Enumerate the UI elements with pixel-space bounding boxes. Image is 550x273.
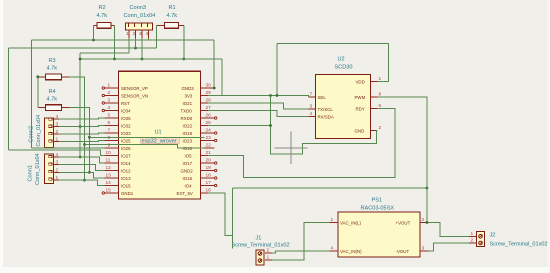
svg-text:IO35: IO35 [121,116,131,121]
svg-text:9: 9 [108,143,111,149]
svg-text:3: 3 [139,31,142,37]
svg-text:4: 4 [108,105,111,111]
wire R1 left lead drop [156,25,158,48]
screw terminal J1 [232,236,290,266]
svg-text:3V3: 3V3 [185,94,193,99]
wire EXT_5V jog [208,193,233,236]
wire rowB [9,47,157,49]
node x79.6 row59 junction [79,58,82,61]
svg-text:IO14: IO14 [121,161,131,166]
wire row59 drop to 3V3 [221,59,223,96]
wire rowA right drop to GND3 [213,40,215,88]
wire TXD0 to RX/SDA [208,111,309,117]
svg-text:3: 3 [56,122,59,128]
node x88.9 junction [88,136,91,139]
svg-text:RXD0: RXD0 [181,116,193,121]
IC U1 esp32_wrover body [119,71,201,199]
IC U2 SCD30 body [316,57,371,139]
wire rowA top rail [32,39,215,41]
svg-text:4: 4 [146,31,149,37]
wire vertical bus x79.6 [79,53,81,157]
resistor R3 [38,58,70,80]
wire R2 right lead drop [114,25,116,59]
wire 5V rail L2 [233,187,427,189]
svg-text:4.7k: 4.7k [47,66,58,72]
svg-text:Conn3: Conn3 [130,5,146,11]
wire R1 right lead drop [183,25,185,59]
U2 pins [309,76,382,134]
wire row59 rail [80,58,222,60]
svg-text:RX/SDA: RX/SDA [318,115,334,120]
wire Conn2 pin2 to IO33 [59,133,105,134]
svg-text:23: 23 [206,135,212,141]
svg-text:18: 18 [206,173,212,179]
connector Conn3 [124,5,156,38]
svg-text:R1: R1 [169,5,176,11]
node SEL junction [269,94,272,97]
svg-text:SENSOR_VN: SENSOR_VN [121,94,148,99]
wire rowC [80,52,129,54]
svg-text:5: 5 [108,113,111,119]
svg-text:VDD: VDD [356,80,365,85]
svg-text:GND3: GND3 [182,86,195,91]
wire 3V3 top run to VDD [277,44,389,82]
svg-text:7: 7 [108,128,111,134]
svg-text:IO25: IO25 [121,139,131,144]
node 5V rail junction [426,187,429,190]
svg-text:8: 8 [108,135,111,141]
node R3 left junction [36,75,39,78]
svg-text:1: 1 [56,137,59,143]
svg-text:Screw_Terminal_01x02: Screw_Terminal_01x02 [490,242,548,248]
svg-text:4: 4 [310,111,313,117]
svg-text:IO27: IO27 [121,154,131,159]
svg-text:U1: U1 [155,130,162,136]
svg-text:R3: R3 [49,58,56,64]
wire R4 right to mesh [70,108,90,173]
svg-text:RAC03-05SX: RAC03-05SX [361,206,395,212]
svg-text:1: 1 [471,231,474,237]
svg-text:14: 14 [106,180,112,186]
svg-text:2: 2 [422,217,425,223]
wire Conn3 pin1 drop [128,38,130,53]
svg-text:IO15: IO15 [121,184,131,189]
wire IO5 run [208,109,395,178]
svg-text:20: 20 [206,158,212,164]
wire +VOUT to J2 pin1 [429,223,470,237]
wire L2 left drop [232,188,234,249]
svg-text:IO13: IO13 [121,176,131,181]
wire Conn2 pin4 to IO35 [59,118,105,119]
svg-text:GND2: GND2 [181,169,194,174]
PS1 pins [330,217,429,254]
svg-text:Conn_01x04: Conn_01x04 [35,153,41,185]
svg-text:-VOUT: -VOUT [396,249,410,254]
svg-text:1: 1 [108,83,111,89]
svg-text:3: 3 [108,98,111,104]
wire Conn1 pin1 to IO15 [59,180,105,185]
svg-text:IO23: IO23 [183,139,193,144]
wire gap row2 to IO27 [9,150,105,156]
svg-text:+VOUT: +VOUT [396,221,411,226]
node x84 junction [83,143,86,146]
svg-text:30: 30 [206,83,212,89]
wire rowB left drop [8,48,10,150]
svg-text:TX/SCL: TX/SCL [318,107,334,112]
svg-text:22: 22 [206,143,212,149]
wire gap row1 to IO26 [32,147,105,149]
svg-text:Conn_01x04: Conn_01x04 [36,115,42,147]
svg-text:26: 26 [206,113,212,119]
svg-text:1: 1 [56,175,59,181]
svg-text:1: 1 [267,255,270,261]
node rowB Conn3 pin2 junction [134,47,137,50]
svg-text:3: 3 [56,160,59,166]
svg-text:11: 11 [106,158,111,164]
node rowA R2 junction [92,39,95,42]
svg-text:4: 4 [56,114,59,120]
svg-text:4.7k: 4.7k [47,97,58,103]
svg-text:4: 4 [331,246,334,252]
svg-text:IO22: IO22 [183,124,193,129]
wire rowA left drop [31,40,33,148]
svg-text:3: 3 [422,246,425,252]
svg-text:GND: GND [355,129,365,134]
node row59 R1 junction [182,58,185,61]
svg-text:7: 7 [310,92,313,98]
svg-text:1: 1 [331,217,334,223]
U1 left pins 1-15 [102,83,148,197]
svg-text:10: 10 [106,150,112,156]
node x88.9 Conn1 pin2 junction [88,171,91,174]
svg-text:SENSOR_VP: SENSOR_VP [121,86,148,91]
svg-text:GND1: GND1 [121,191,134,196]
svg-text:VAC_IN(N): VAC_IN(N) [340,249,362,254]
svg-text:1: 1 [126,31,129,37]
power module PS1 RAC03-05SX body [338,198,420,258]
node x79.6 Conn1 pin4 junction [79,156,82,159]
svg-text:RST: RST [121,101,130,106]
screw terminal J2 [469,231,548,248]
svg-text:IO4: IO4 [185,184,193,189]
svg-text:2: 2 [471,238,474,244]
svg-text:IO21: IO21 [183,101,193,106]
svg-text:4.7k: 4.7k [97,13,108,19]
svg-text:PWM: PWM [355,95,366,100]
cursor crosshair [275,132,308,165]
wire Conn2 pin1 to IO25 [59,141,105,142]
wire J1 pin1 to VAC_IN(L) [272,223,330,261]
svg-text:2: 2 [56,167,59,173]
svg-text:2: 2 [379,125,382,131]
svg-text:IO19: IO19 [183,131,193,136]
connector Conn2 [29,114,60,148]
svg-text:R4: R4 [49,89,56,95]
node 3V3 riser junction [276,94,279,97]
wire Conn2 pin3 to IO32 [59,126,105,127]
svg-text:12: 12 [106,165,112,171]
wire J1 pin2 to VAC_IN(N) [272,251,330,253]
wire SEL drop [271,96,378,155]
wire Conn3 pin2 drop [135,38,137,48]
svg-text:TXD0: TXD0 [181,109,193,114]
wire overlay across U1 to IO18 [85,145,205,149]
svg-text:EXT_5V: EXT_5V [177,191,193,196]
svg-text:RDY: RDY [356,107,365,112]
svg-text:IO26: IO26 [121,146,131,151]
svg-text:Conn_01x04: Conn_01x04 [124,13,156,19]
svg-text:2: 2 [56,129,59,135]
wire Conn3 pin3 drop [141,38,143,59]
svg-text:J2: J2 [490,233,496,239]
svg-text:3: 3 [310,104,313,110]
svg-text:SEL: SEL [318,95,327,100]
node row59 Conn3 pin3 junction [141,58,144,61]
svg-text:2: 2 [108,90,111,96]
resistor R4 [38,89,70,111]
node x79.6 Conn2 pin3 junction [79,125,82,128]
resistor R1 [157,5,184,28]
svg-text:4: 4 [56,152,59,158]
wire Conn1 pin3 to IO12 [59,165,105,171]
node IO22 junction [269,124,272,127]
U1 right pins 16-30 [177,83,217,197]
wire R3 right to mesh [70,77,85,180]
node +VOUT junction [426,221,429,224]
wire Conn1 pin4 to IO14 [59,157,105,163]
node row59 R2 junction [113,58,116,61]
wire Conn1 pin2 to IO13 [59,172,105,178]
svg-text:IO32: IO32 [121,124,131,129]
connector Conn1 [28,152,60,185]
svg-text:4.7k: 4.7k [167,13,178,19]
svg-text:IO17: IO17 [183,161,193,166]
wire IO22 to SEL net [208,125,271,127]
svg-text:VAC_IN(L): VAC_IN(L) [340,221,361,226]
svg-text:17: 17 [206,180,212,186]
svg-text:IO12: IO12 [121,169,131,174]
svg-text:SCD30: SCD30 [335,65,353,71]
svg-text:IO5: IO5 [185,154,193,159]
svg-text:IO33: IO33 [121,131,131,136]
wire -VOUT to J2 pin2 [429,243,470,251]
svg-text:19: 19 [206,165,212,171]
wire 3V3 to SEL row [208,96,309,98]
wire overlay across U1 upper [89,136,204,138]
svg-text:24: 24 [206,128,212,134]
wire R2 left lead drop [93,25,95,40]
svg-text:IO34: IO34 [121,109,131,114]
svg-text:PS1: PS1 [372,198,383,204]
svg-text:Conn1: Conn1 [28,165,34,181]
wire 3V3 riser [276,44,278,96]
svg-text:esp32_wrover: esp32_wrover [142,139,177,145]
svg-text:R2: R2 [99,5,106,11]
wire IO21 to TX/SCL [208,103,309,109]
svg-text:Screw_Terminal_01x02: Screw_Terminal_01x02 [232,243,290,249]
node GND3 junction [213,87,216,90]
svg-text:J1: J1 [256,236,262,242]
svg-text:13: 13 [106,173,112,179]
node x84 Conn1 pin1 junction [83,179,86,182]
svg-text:U2: U2 [338,57,345,63]
svg-text:15: 15 [106,188,112,194]
wire PWM to +VOUT [378,97,427,223]
wire R3 left junction vertical [37,77,39,108]
svg-text:2: 2 [133,31,136,37]
svg-text:6: 6 [108,120,111,126]
wire Conn3 pin4 drop joining rowA [148,38,150,40]
svg-text:IO16: IO16 [183,176,193,181]
resistor R2 [94,5,115,28]
